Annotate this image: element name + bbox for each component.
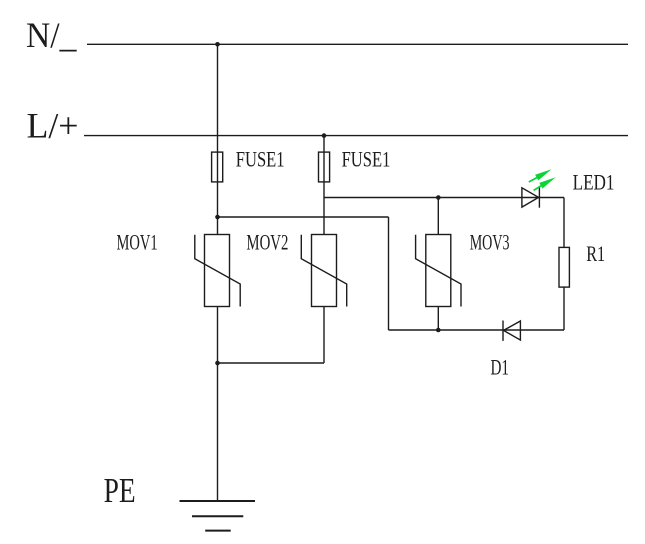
node junction N' tap bbox=[215, 215, 220, 220]
varistor MOV3 bbox=[416, 235, 461, 307]
svg-text:FUSE1: FUSE1 bbox=[236, 148, 285, 172]
svg-text:D1: D1 bbox=[491, 356, 510, 380]
wire node N' horizontal run bbox=[218, 216, 389, 218]
led LED1 emission arrow 1 bbox=[529, 169, 552, 182]
wire MOV2 bottom to MOV1 bottom run bbox=[218, 362, 325, 364]
wire MOV2 bottom lead bbox=[323, 307, 325, 364]
node junction on L bus bbox=[322, 133, 327, 138]
svg-text:MOV1: MOV1 bbox=[117, 230, 158, 254]
node junction MOV3 bottom bbox=[436, 328, 441, 333]
svg-text:L/+: L/+ bbox=[27, 106, 79, 146]
led LED1 emission arrow 2 bbox=[534, 177, 556, 190]
varistor MOV1 bbox=[195, 235, 240, 307]
svg-text:R1: R1 bbox=[586, 242, 605, 266]
led LED1 triangle and cathode bar bbox=[522, 187, 540, 208]
varistor MOV2 bbox=[301, 235, 346, 307]
svg-text:LED1: LED1 bbox=[573, 171, 615, 195]
diode D1 triangle and cathode bar bbox=[503, 321, 520, 341]
wire FUSE1b branch from L through fuse to MOV2 top bbox=[323, 136, 325, 235]
fuse FUSE1b body bbox=[319, 152, 330, 182]
node junction PE tap bbox=[215, 361, 220, 366]
wire indicator bottom run (through D1) bbox=[389, 329, 565, 331]
svg-text:MOV3: MOV3 bbox=[470, 231, 510, 255]
wire MOV3 bottom lead bbox=[437, 307, 439, 331]
wire node L' LED run bbox=[324, 197, 564, 199]
fuse FUSE1a body bbox=[212, 152, 223, 182]
wire MOV3 top lead bbox=[437, 198, 439, 235]
wire MOV1 bottom to ground bbox=[217, 307, 219, 502]
node junction MOV3 top bbox=[436, 195, 441, 200]
svg-text:MOV2: MOV2 bbox=[246, 230, 288, 254]
node junction on N bus bbox=[215, 42, 220, 47]
svg-text:N/_: N/_ bbox=[26, 15, 77, 55]
wire L bus bbox=[84, 135, 628, 137]
wire N bus bbox=[87, 43, 628, 45]
ground PE symbol bbox=[180, 501, 256, 531]
wire LED to R1 vertical bbox=[563, 198, 565, 331]
resistor R1 body bbox=[559, 247, 569, 287]
svg-text:PE: PE bbox=[104, 471, 136, 510]
svg-text:FUSE1: FUSE1 bbox=[342, 148, 391, 172]
wire FUSE1a branch from N through fuse to MOV1 top bbox=[217, 44, 219, 234]
wire node N' vertical drop bbox=[388, 217, 390, 330]
